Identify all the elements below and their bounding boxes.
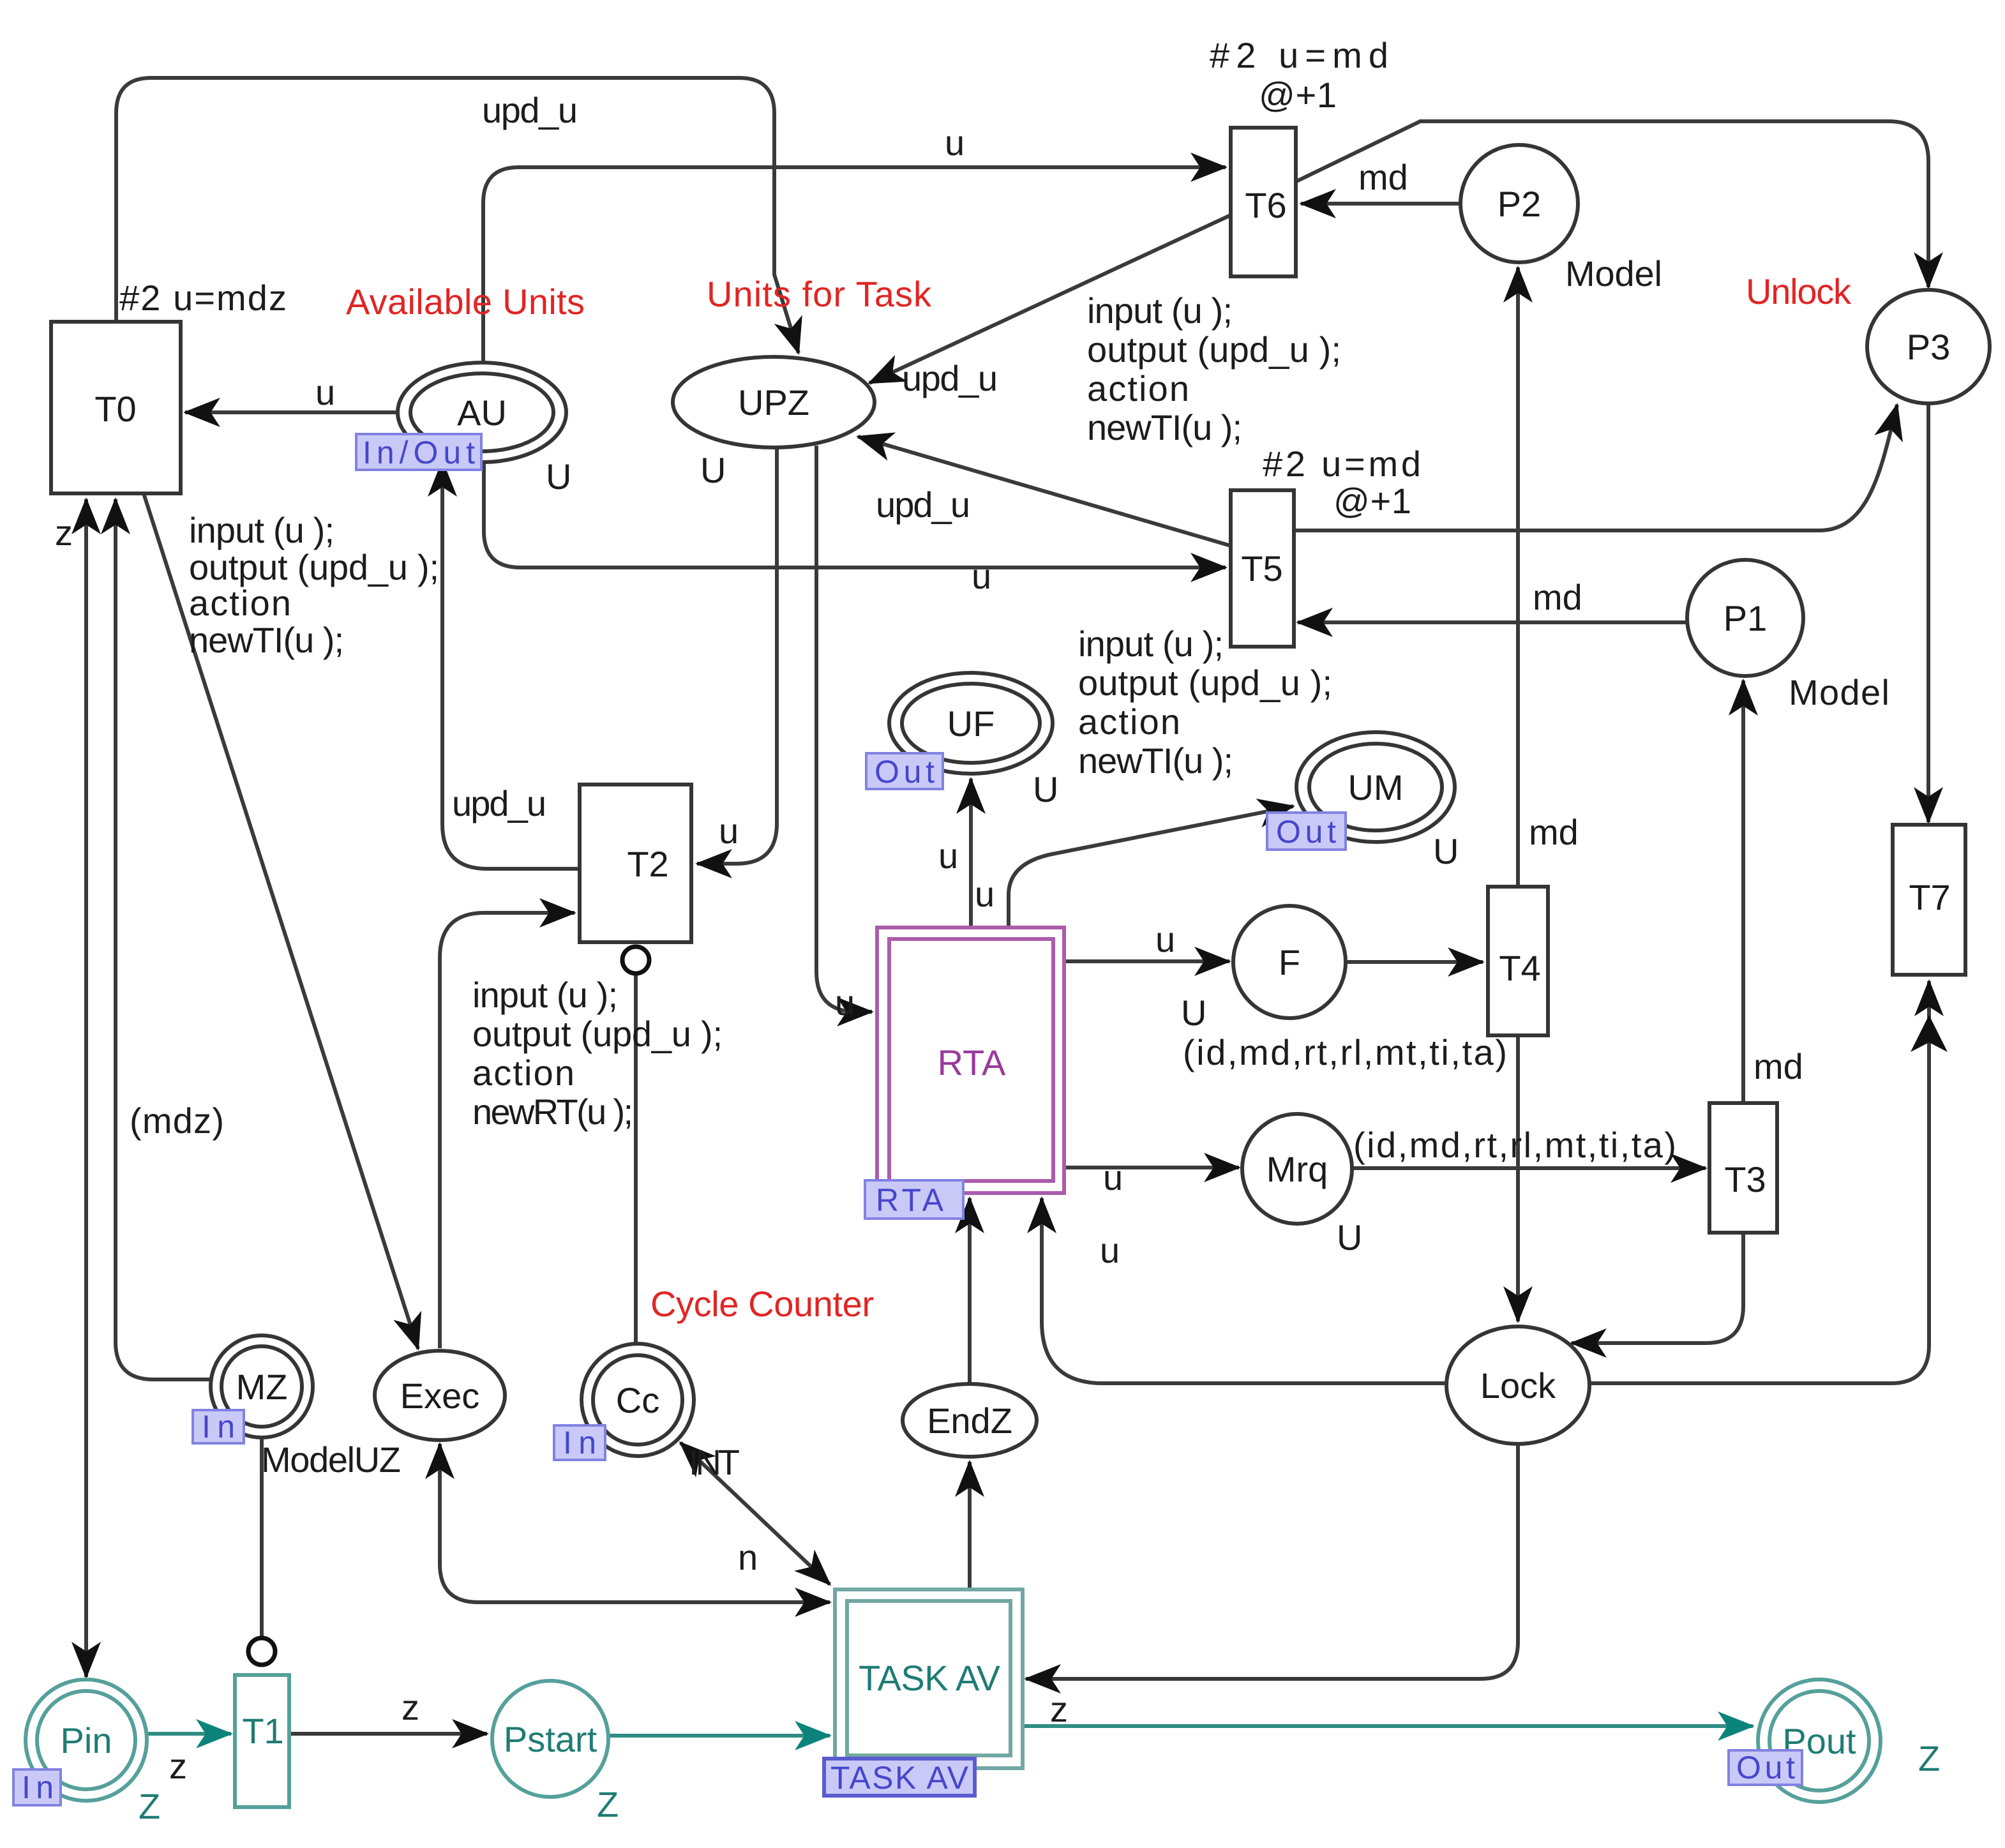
svg-text:T2: T2 <box>627 844 668 884</box>
svg-text:TASK AV: TASK AV <box>830 1760 969 1796</box>
wire RTA to UM (u) <box>1009 806 1293 928</box>
svg-text:u: u <box>975 874 995 914</box>
svg-text:U: U <box>546 456 571 497</box>
svg-text:Exec: Exec <box>400 1376 480 1416</box>
transition T1 (teal) <box>235 1675 289 1807</box>
wire Pstart to TASKAV <box>608 1734 830 1738</box>
wire F to T4 <box>1346 960 1483 964</box>
svg-text:newTI(u );: newTI(u ); <box>1087 407 1242 447</box>
svg-text:upd_u: upd_u <box>876 485 970 525</box>
wire AU to T6 (u) <box>483 167 1226 364</box>
wire T0 to Exec <box>144 493 418 1349</box>
wire T2 to Cc <box>634 974 638 1346</box>
place MZ double <box>211 1335 313 1438</box>
wire Exec to TASKAV double <box>440 1444 830 1602</box>
wire P1 to T5 (md) <box>1298 620 1687 624</box>
place AU double <box>398 363 566 462</box>
svg-text:input (u );: input (u ); <box>189 510 334 550</box>
substitution transition RTA (purple) <box>877 928 1064 1193</box>
svg-text:Lock: Lock <box>1480 1365 1556 1406</box>
svg-text:T5: T5 <box>1241 548 1282 589</box>
svg-text:n: n <box>738 1537 758 1577</box>
transition T0 <box>51 322 181 493</box>
wire T4 to Lock <box>1516 1035 1520 1321</box>
wire Lock to TASKAV (z) <box>1026 1444 1518 1679</box>
svg-text:Out: Out <box>1276 814 1336 850</box>
svg-text:In: In <box>563 1425 596 1461</box>
svg-text:Available Units: Available Units <box>346 282 585 322</box>
svg-text:upd_u: upd_u <box>452 783 546 823</box>
svg-text:Model: Model <box>1565 253 1662 294</box>
svg-text:AU: AU <box>457 393 507 433</box>
svg-text:Pstart: Pstart <box>504 1719 597 1759</box>
wire TASKAV to Pout <box>1023 1724 1753 1728</box>
svg-text:U: U <box>1033 769 1058 809</box>
wire UPZ to T2 (u) <box>697 446 777 864</box>
wire P2 to T6 (md) <box>1301 202 1461 206</box>
svg-text:In: In <box>22 1769 54 1805</box>
place Pout teal double <box>1758 1679 1881 1802</box>
svg-text:Z: Z <box>139 1786 160 1826</box>
wire EndZ to RTA <box>968 1198 972 1384</box>
port tag In of MZ <box>193 1410 244 1443</box>
svg-text:z: z <box>169 1746 187 1786</box>
svg-text:u: u <box>1103 1157 1123 1198</box>
place Mrq <box>1242 1114 1352 1224</box>
transition T6 <box>1231 128 1296 276</box>
svg-text:T1: T1 <box>242 1711 283 1751</box>
wire T0 to UPZ (upd_u) <box>116 78 799 353</box>
svg-text:u: u <box>938 836 958 876</box>
svg-text:UM: UM <box>1348 767 1403 808</box>
svg-text:#2 u=md: #2 u=md <box>1210 35 1388 75</box>
wire RTA to F (u) <box>1064 959 1229 963</box>
port tag In/Out of AU <box>356 434 481 470</box>
svg-text:newRT(u );: newRT(u ); <box>472 1092 633 1132</box>
svg-text:md: md <box>1533 577 1582 617</box>
svg-text:z: z <box>55 513 73 553</box>
svg-text:(id,md,rt,rl,mt,ti,ta): (id,md,rt,rl,mt,ti,ta) <box>1353 1125 1676 1165</box>
svg-text:upd_u: upd_u <box>482 90 578 130</box>
svg-text:action: action <box>472 1053 574 1093</box>
svg-text:input (u );: input (u ); <box>472 975 618 1015</box>
place UPZ <box>673 357 875 447</box>
place P1 <box>1687 560 1803 676</box>
place Exec <box>375 1351 505 1440</box>
transition T7 <box>1893 825 1965 975</box>
port tag In of Cc <box>554 1425 605 1460</box>
svg-text:z: z <box>402 1687 419 1727</box>
place Pin teal double <box>26 1679 147 1801</box>
wire T6 to P3 <box>1294 121 1928 287</box>
port tag TASK AV of TASKAV <box>824 1759 975 1796</box>
svg-text:Unlock: Unlock <box>1746 271 1852 312</box>
port tag RTA of RTA <box>865 1180 963 1219</box>
wire UPZ to RTA (u) <box>816 446 872 1012</box>
svg-text:U: U <box>1337 1217 1362 1258</box>
wire Lock to T7 double-chevron <box>1589 981 1929 1383</box>
wire T5 to P3 <box>1294 405 1897 530</box>
wire T2 to AU (upd_u) <box>442 462 580 869</box>
svg-text:output (upd_u );: output (upd_u ); <box>1078 663 1332 703</box>
svg-text:In/Out: In/Out <box>363 435 475 470</box>
place Cc double <box>582 1344 694 1456</box>
svg-text:RTA: RTA <box>938 1042 1006 1083</box>
wire T3 to P1 (md) <box>1741 680 1745 1103</box>
svg-text:md: md <box>1529 812 1579 852</box>
place UM double <box>1296 732 1455 842</box>
svg-text:@+1: @+1 <box>1259 75 1337 115</box>
svg-text:U: U <box>1433 831 1459 871</box>
svg-text:output (upd_u );: output (upd_u ); <box>189 547 439 587</box>
transition T3 <box>1709 1103 1777 1233</box>
svg-text:action: action <box>189 583 291 623</box>
svg-text:Out: Out <box>875 754 935 790</box>
svg-text:Model: Model <box>1789 672 1889 712</box>
place F <box>1233 906 1346 1018</box>
wire T5 to UPZ (upd_u) <box>858 437 1231 546</box>
svg-text:Cc: Cc <box>616 1380 659 1420</box>
svg-text:@+1: @+1 <box>1333 481 1411 521</box>
wire Pin to T0 double (z) <box>84 499 88 1677</box>
svg-text:Mrq: Mrq <box>1266 1149 1328 1189</box>
svg-text:Out: Out <box>1736 1750 1795 1785</box>
wire T3 to Lock <box>1572 1233 1743 1343</box>
wire AU to T5 (u) <box>484 461 1226 567</box>
svg-text:u: u <box>945 123 965 163</box>
place Pstart teal <box>492 1681 608 1797</box>
port tag Out of UM <box>1267 813 1346 850</box>
port tag In of Pin <box>13 1769 61 1805</box>
svg-text:u: u <box>835 982 855 1023</box>
port tag Out of UF <box>866 753 943 789</box>
wire P3 to T7 <box>1926 403 1930 822</box>
wire TASKAV to EndZ <box>968 1462 972 1589</box>
svg-text:Units for Task: Units for Task <box>707 274 932 314</box>
svg-text:T4: T4 <box>1499 948 1540 988</box>
svg-text:#2 u=md: #2 u=md <box>1263 444 1421 484</box>
svg-text:T6: T6 <box>1245 185 1286 225</box>
svg-text:upd_u: upd_u <box>902 358 998 398</box>
wire Mrq to T3 <box>1352 1166 1706 1170</box>
svg-text:#2 u=mdz: #2 u=mdz <box>119 278 287 318</box>
svg-text:Z: Z <box>1918 1738 1940 1778</box>
port circle above T1 <box>248 1638 275 1665</box>
svg-text:output (upd_u );: output (upd_u ); <box>1087 329 1341 370</box>
svg-text:newTI(u );: newTI(u ); <box>1078 740 1233 781</box>
svg-text:In: In <box>202 1409 235 1445</box>
wire Pin to T1 (z) <box>147 1732 231 1736</box>
svg-text:u: u <box>1100 1230 1120 1270</box>
wire MZ to T1 <box>260 1438 264 1637</box>
svg-text:F: F <box>1279 942 1300 982</box>
transition T2 <box>580 785 691 942</box>
wire Lock to RTA (u) <box>1042 1198 1446 1383</box>
svg-text:Z: Z <box>597 1784 619 1824</box>
wire AU to T0 (u) <box>185 410 399 414</box>
svg-text:u: u <box>719 811 739 851</box>
svg-text:(mdz): (mdz) <box>130 1101 224 1141</box>
svg-text:input (u );: input (u ); <box>1078 624 1224 664</box>
svg-text:UF: UF <box>947 703 995 744</box>
svg-text:U: U <box>700 450 726 490</box>
substitution transition TASK AV (teal) <box>835 1589 1023 1768</box>
wire MZ to T0 (mdz) <box>116 499 212 1379</box>
svg-text:z: z <box>1050 1689 1068 1729</box>
port circle below T2 <box>622 947 649 973</box>
place UF double <box>889 673 1053 774</box>
place P3 <box>1867 290 1990 403</box>
svg-text:md: md <box>1753 1046 1803 1086</box>
svg-text:TASK AV: TASK AV <box>859 1658 1001 1698</box>
wire Exec to T2 <box>440 913 574 1348</box>
transition T5 <box>1231 490 1294 647</box>
transition T4 <box>1488 887 1548 1035</box>
wire RTA to Mrq (u) <box>1064 1166 1239 1169</box>
svg-text:INT: INT <box>689 1442 740 1482</box>
svg-text:P3: P3 <box>1907 327 1951 367</box>
place P2 <box>1461 145 1578 262</box>
svg-text:action: action <box>1087 368 1189 409</box>
svg-text:u: u <box>972 556 991 596</box>
svg-text:P1: P1 <box>1723 598 1768 638</box>
svg-text:newTI(u );: newTI(u ); <box>189 620 344 660</box>
svg-text:EndZ: EndZ <box>927 1401 1012 1441</box>
svg-text:input (u );: input (u ); <box>1087 290 1233 331</box>
svg-text:MZ: MZ <box>236 1367 288 1407</box>
wire T4 to P2 (md) <box>1516 267 1520 887</box>
svg-text:(id,md,rt,rl,mt,ti,ta): (id,md,rt,rl,mt,ti,ta) <box>1183 1032 1507 1072</box>
svg-text:P2: P2 <box>1498 184 1542 224</box>
svg-text:output (upd_u );: output (upd_u ); <box>472 1014 723 1054</box>
port tag Out of Pout <box>1729 1750 1802 1785</box>
svg-text:T0: T0 <box>94 389 136 429</box>
extra chevron at T7 bottom <box>1911 1015 1948 1052</box>
svg-text:ModelUZ: ModelUZ <box>261 1439 401 1480</box>
place Lock <box>1446 1326 1589 1444</box>
svg-text:u: u <box>315 372 335 412</box>
place EndZ <box>903 1384 1037 1457</box>
wire RTA to UF (u) <box>969 779 973 928</box>
svg-text:Pin: Pin <box>61 1720 112 1761</box>
svg-text:RTA: RTA <box>876 1182 944 1218</box>
svg-text:u: u <box>1155 919 1175 959</box>
svg-text:T3: T3 <box>1724 1159 1766 1199</box>
svg-text:UPZ: UPZ <box>738 382 809 423</box>
wire T1 to Pstart (z) <box>289 1732 487 1736</box>
wire T6 to UPZ (upd_u) <box>869 215 1231 383</box>
svg-text:U: U <box>1181 993 1206 1033</box>
svg-text:Cycle Counter: Cycle Counter <box>650 1284 874 1324</box>
svg-text:md: md <box>1358 157 1408 197</box>
svg-text:T7: T7 <box>1909 877 1950 917</box>
svg-text:action: action <box>1078 702 1180 742</box>
wire Cc to TASKAV double (n) <box>680 1443 830 1584</box>
